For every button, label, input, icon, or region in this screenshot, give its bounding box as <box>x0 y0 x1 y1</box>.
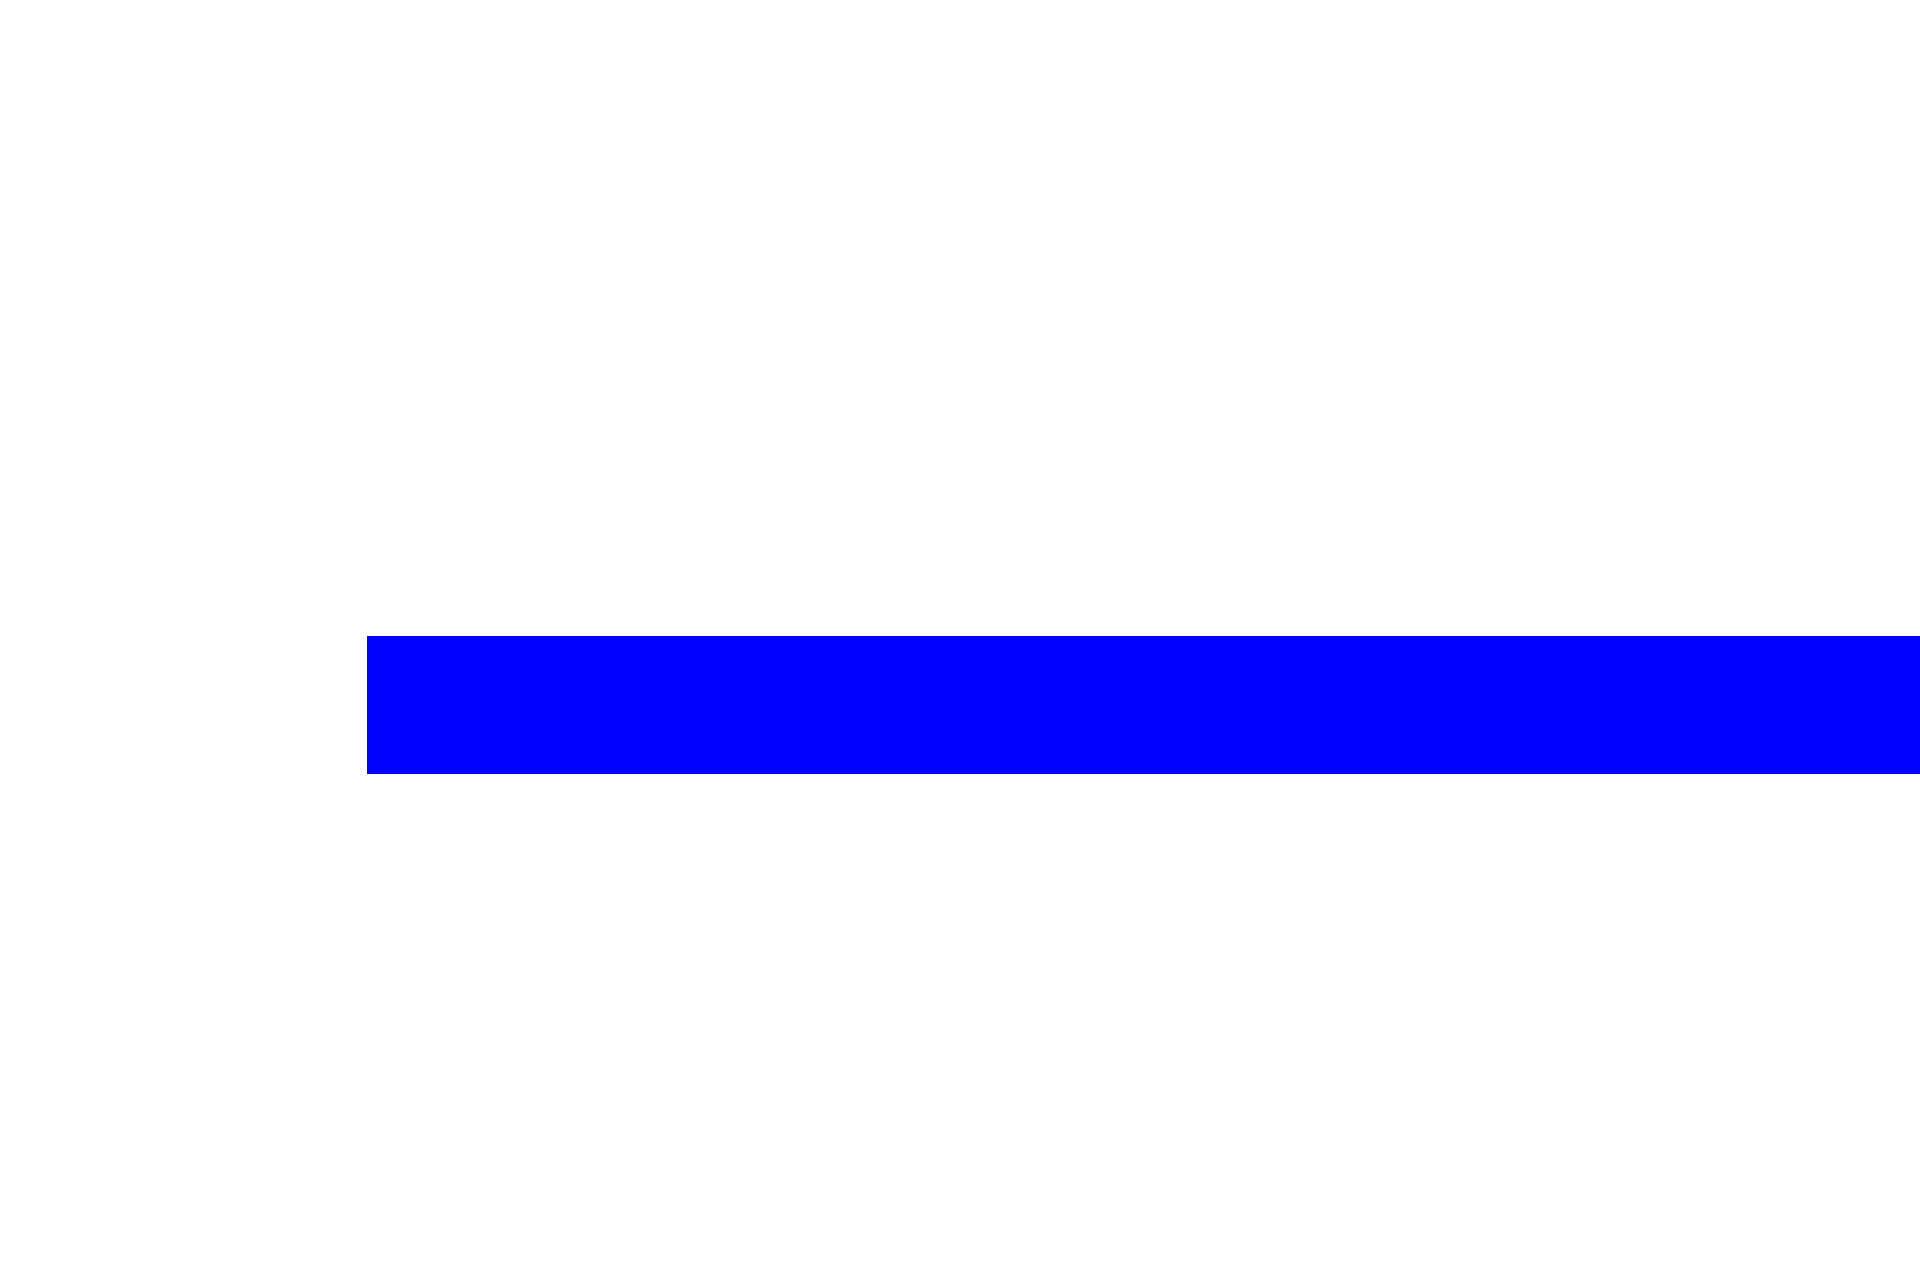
blue bar <box>367 636 1920 774</box>
